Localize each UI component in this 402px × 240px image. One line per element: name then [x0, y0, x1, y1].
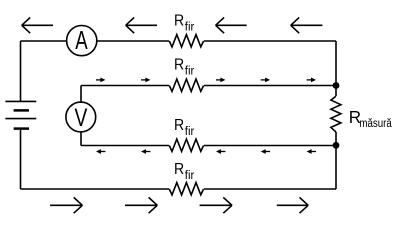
node A (junction dot top) [333, 82, 340, 89]
wire left vertical upper (top wire to battery) [20, 41, 22, 101]
resistor R_fir bottom [169, 183, 203, 195]
small current arrow sense-bottom 1 (left) [96, 149, 105, 154]
wire top-left horizontal (battery to ammeter) [21, 40, 67, 42]
resistor R_fir sense-bottom [169, 139, 203, 151]
resistor R_fir sense-top [169, 79, 203, 91]
small current arrow sense-top 4 (right) [261, 78, 270, 83]
current arrow top 4 (left) [291, 17, 323, 33]
svg-text:R: R [174, 160, 184, 178]
svg-text:A: A [75, 26, 88, 55]
svg-text:R: R [174, 12, 184, 30]
wire sense top (voltmeter to R2) [81, 85, 169, 87]
current arrow bottom 3 (right) [200, 197, 232, 213]
wire top (R1 to right corner) [204, 40, 336, 42]
wire voltmeter stem upper [80, 86, 82, 103]
ammeter A circle [67, 25, 97, 55]
resistor R_fir top [169, 35, 203, 47]
svg-text:R: R [174, 116, 184, 134]
wire bottom (left corner to R4) [21, 188, 170, 190]
label R_masura [349, 107, 393, 131]
wire sense bottom (voltmeter to R3) [81, 145, 169, 147]
svg-text:fir: fir [185, 125, 195, 138]
wire bottom (R4 to right corner) [204, 188, 336, 190]
current arrow top 3 (left) [216, 17, 247, 33]
small current arrow sense-top 1 (right) [96, 78, 105, 83]
wire sense top (R2 to node A) [204, 85, 336, 87]
label R_fir sense-bottom [174, 116, 194, 138]
svg-text:fir: fir [185, 169, 195, 182]
current arrow bottom 4 (right) [277, 197, 308, 213]
small current arrow sense-bottom 3 (left) [216, 149, 225, 154]
small current arrow sense-top 3 (right) [216, 78, 225, 83]
battery short plate 1 [14, 109, 29, 112]
battery short plate 2 [14, 127, 29, 130]
wire sense bottom (R3 to node B) [204, 145, 336, 147]
wire R_masura to node B [335, 132, 337, 146]
battery long plate 2 [5, 118, 36, 120]
current arrow top 2 (left) [126, 17, 157, 33]
svg-text:fir: fir [185, 64, 195, 77]
current arrow top 1 (left) [22, 17, 53, 33]
svg-text:R: R [174, 55, 184, 73]
label R_fir bottom [174, 160, 194, 182]
svg-text:V: V [75, 104, 88, 132]
svg-text:măsură: măsură [359, 117, 392, 130]
voltmeter V circle [66, 102, 96, 132]
node B (junction dot bottom) [333, 142, 340, 149]
wire voltmeter stem lower [80, 132, 82, 146]
current arrow bottom 1 (right) [50, 197, 82, 213]
label R_fir sense-top [174, 55, 194, 77]
small current arrow sense-top 2 (right) [141, 78, 150, 83]
current arrow bottom 2 (right) [125, 197, 157, 213]
svg-text:fir: fir [185, 20, 195, 33]
wire right vertical upper [335, 41, 337, 86]
wire top (ammeter to R1) [97, 40, 169, 42]
small current arrow sense-bottom 4 (left) [261, 149, 270, 154]
wire node A to R_masura [335, 86, 337, 97]
battery long plate 1 [5, 100, 36, 102]
wire left vertical lower (battery to bottom wire) [20, 129, 22, 189]
label R_fir top [174, 12, 194, 34]
resistor R_masura vertical [331, 96, 341, 132]
small current arrow sense-top 5 (right) [307, 78, 316, 83]
small current arrow sense-bottom 5 (left) [307, 149, 316, 154]
small current arrow sense-bottom 2 (left) [141, 149, 150, 154]
wire right vertical lower [335, 146, 337, 190]
